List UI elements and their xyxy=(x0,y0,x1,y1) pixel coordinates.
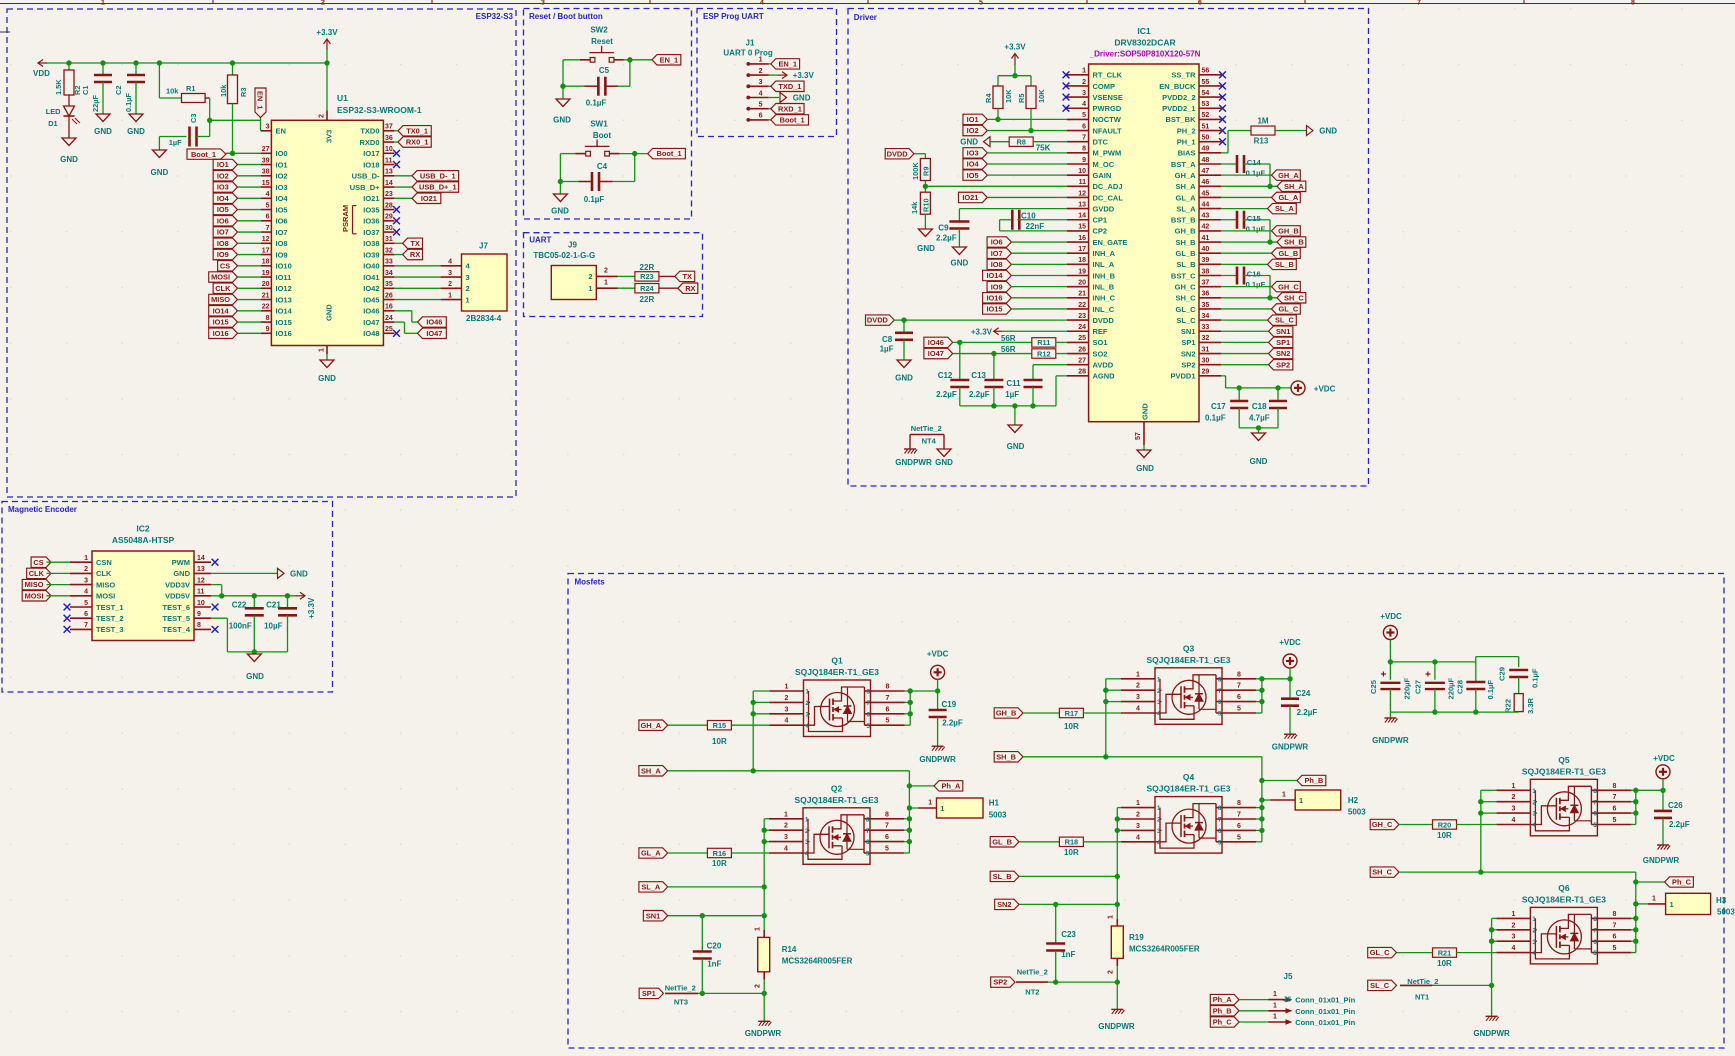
label IO8 left xyxy=(213,238,261,248)
svg-text:GH_A: GH_A xyxy=(1278,171,1299,180)
label IO46 right xyxy=(418,317,447,327)
svg-text:7: 7 xyxy=(1082,135,1086,142)
svg-text:1.5K: 1.5K xyxy=(54,79,63,95)
svg-text:R9: R9 xyxy=(922,167,931,176)
wire SW1 right xyxy=(599,151,648,182)
wire Q6 source bus xyxy=(1489,918,1497,1016)
svg-text:+VDC: +VDC xyxy=(1380,612,1402,621)
svg-text:C26: C26 xyxy=(1668,801,1683,810)
svg-text:IO6: IO6 xyxy=(217,216,229,225)
svg-text:DC_CAL: DC_CAL xyxy=(1093,193,1124,202)
IC1 left pin 20 INL_B xyxy=(1067,279,1115,291)
svg-text:15: 15 xyxy=(262,180,270,187)
svg-text:2: 2 xyxy=(466,284,470,293)
svg-text:H3: H3 xyxy=(1716,896,1727,905)
svg-text:1: 1 xyxy=(1282,792,1286,799)
svg-text:IO47: IO47 xyxy=(928,349,944,358)
svg-text:1: 1 xyxy=(1136,800,1140,807)
svg-text:4: 4 xyxy=(1136,834,1140,841)
svg-text:GNDPWR: GNDPWR xyxy=(1272,743,1309,752)
svg-text:CLK: CLK xyxy=(96,569,112,578)
power GND J1 xyxy=(769,93,811,103)
svg-text:57: 57 xyxy=(1135,432,1142,440)
svg-text:TX: TX xyxy=(683,272,693,281)
power +VDC driver xyxy=(1291,381,1336,395)
svg-text:19: 19 xyxy=(262,270,270,277)
svg-text:RX: RX xyxy=(685,284,695,293)
svg-text:SQJQ184ER-T1_GE3: SQJQ184ER-T1_GE3 xyxy=(1522,766,1606,776)
svg-text:SL_C: SL_C xyxy=(1176,316,1196,325)
J7 pin 4 xyxy=(394,259,470,271)
label CLK encoder xyxy=(27,568,51,578)
svg-text:26: 26 xyxy=(1078,346,1086,353)
IC1 left pin 15 CP2 xyxy=(1067,224,1107,236)
no-connect IC1 pin 55 xyxy=(1219,83,1226,90)
svg-text:15: 15 xyxy=(1078,224,1086,231)
svg-text:5: 5 xyxy=(266,202,270,209)
svg-text:IO35: IO35 xyxy=(363,205,379,214)
wire BIAS to R13 xyxy=(1221,131,1251,153)
svg-text:+VDC: +VDC xyxy=(927,650,949,659)
svg-text:PVDD2_2: PVDD2_2 xyxy=(1162,93,1195,102)
no-connect IC1 pin 53 xyxy=(1219,105,1226,112)
svg-text:+VDC: +VDC xyxy=(1314,385,1336,394)
svg-text:USB_D+_1: USB_D+_1 xyxy=(419,183,457,192)
resistor R1 xyxy=(159,63,209,103)
svg-text:3: 3 xyxy=(84,577,88,584)
svg-text:GVDD: GVDD xyxy=(1093,204,1115,213)
svg-text:EN_1: EN_1 xyxy=(256,91,265,110)
svg-text:NetTie_2: NetTie_2 xyxy=(911,424,942,433)
svg-text:10: 10 xyxy=(1078,168,1086,175)
label SH_A mosfet xyxy=(639,766,668,776)
svg-text:22µF: 22µF xyxy=(91,95,100,112)
label TX uart xyxy=(675,271,695,281)
svg-text:GH_B: GH_B xyxy=(1278,227,1299,236)
svg-text:C10: C10 xyxy=(1021,212,1036,221)
svg-text:NetTie_2: NetTie_2 xyxy=(665,984,696,993)
svg-text:2: 2 xyxy=(1136,812,1140,819)
svg-text:IO45: IO45 xyxy=(363,295,379,304)
IC1 left pin 9 M_OC xyxy=(1067,157,1115,169)
svg-text:SQJQ184ER-T1_GE3: SQJQ184ER-T1_GE3 xyxy=(794,795,878,805)
svg-text:10k: 10k xyxy=(219,84,228,97)
J1 pin 5 stub xyxy=(747,102,769,111)
IC1 left pin 8 M_PWM xyxy=(1067,146,1122,158)
IC1 right pin 38 BST_C xyxy=(1171,268,1221,280)
IC2 left pin 7 TEST_3 xyxy=(70,622,124,634)
label Boot_1 switch xyxy=(648,148,686,158)
svg-text:Q3: Q3 xyxy=(1183,643,1195,653)
svg-text:2.2µF: 2.2µF xyxy=(936,234,957,243)
svg-text:16: 16 xyxy=(1078,235,1086,242)
svg-text:7: 7 xyxy=(885,823,889,830)
capacitor C20 xyxy=(693,916,722,994)
svg-text:Reset: Reset xyxy=(591,37,613,46)
svg-text:6: 6 xyxy=(759,113,763,120)
label GH_B mosfet xyxy=(994,708,1023,718)
label MISO encoder xyxy=(22,579,51,589)
svg-text:1: 1 xyxy=(1299,796,1303,805)
wire AGND rail xyxy=(960,376,1067,409)
svg-text:PSRAM: PSRAM xyxy=(341,205,350,232)
label MISO left xyxy=(209,294,261,304)
svg-text:19: 19 xyxy=(1078,268,1086,275)
svg-text:43: 43 xyxy=(1202,213,1210,220)
svg-text:RX0_1: RX0_1 xyxy=(406,138,429,147)
label SN1 driver xyxy=(1221,326,1293,336)
IC1 left pin 13 GVDD xyxy=(1067,201,1115,213)
svg-text:220µF: 220µF xyxy=(1403,677,1412,699)
svg-text:GNDPWR: GNDPWR xyxy=(1643,856,1680,865)
svg-text:2.2µF: 2.2µF xyxy=(942,719,963,728)
svg-text:5: 5 xyxy=(1237,834,1241,841)
wire CS encoder xyxy=(47,561,71,563)
label IO47 driver xyxy=(924,348,1032,358)
svg-text:0.1µF: 0.1µF xyxy=(1486,680,1495,700)
ground below C1 xyxy=(94,114,112,136)
svg-text:C12: C12 xyxy=(938,371,953,380)
svg-text:GNDPWR: GNDPWR xyxy=(745,1029,782,1038)
svg-text:IO46: IO46 xyxy=(363,307,379,316)
no-connect IO18 xyxy=(393,161,400,168)
svg-text:C25: C25 xyxy=(1369,679,1378,694)
svg-text:BST_A: BST_A xyxy=(1171,160,1196,169)
svg-text:SH_B: SH_B xyxy=(1284,238,1304,247)
wire C17 C18 gnd rail xyxy=(1239,425,1278,433)
svg-text:1: 1 xyxy=(928,800,932,807)
svg-text:EN_1: EN_1 xyxy=(660,55,679,64)
svg-text:UART 0 Prog: UART 0 Prog xyxy=(723,49,772,58)
svg-text:8: 8 xyxy=(1082,146,1086,153)
IC1 left pin 12 DC_CAL xyxy=(1067,190,1124,202)
svg-text:1: 1 xyxy=(448,292,452,299)
svg-text:+VDC: +VDC xyxy=(1653,754,1675,763)
label IO21 driver xyxy=(959,192,1067,202)
svg-text:13: 13 xyxy=(385,169,393,176)
label IO2 left xyxy=(213,171,261,181)
svg-text:NT2: NT2 xyxy=(1025,988,1039,997)
wire Q5 drain bus xyxy=(1631,788,1665,825)
label SL_A driver xyxy=(1221,203,1296,213)
resistor R12 xyxy=(1001,345,1067,358)
svg-text:TBC05-02-1-G-G: TBC05-02-1-G-G xyxy=(533,251,595,260)
svg-text:1: 1 xyxy=(1108,915,1115,919)
svg-text:GH_B: GH_B xyxy=(1175,227,1196,236)
resistor R21 xyxy=(1397,948,1497,968)
svg-text:SP1: SP1 xyxy=(642,989,656,998)
svg-text:Ph_A: Ph_A xyxy=(941,782,961,791)
svg-text:C13: C13 xyxy=(971,371,986,380)
svg-text:R11: R11 xyxy=(1037,338,1050,347)
svg-text:38: 38 xyxy=(262,169,270,176)
svg-text:PVDD2_1: PVDD2_1 xyxy=(1162,104,1195,113)
label SL_B driver xyxy=(1221,259,1296,269)
label SH_C driver xyxy=(1221,293,1306,303)
svg-text:GL_A: GL_A xyxy=(1279,193,1299,202)
J1 pin 6 stub xyxy=(747,113,769,122)
svg-text:4: 4 xyxy=(84,589,88,596)
svg-text:Q1: Q1 xyxy=(831,656,843,666)
label SN2 driver xyxy=(1221,348,1293,358)
svg-text:0.1µF: 0.1µF xyxy=(1246,225,1266,234)
svg-text:36: 36 xyxy=(385,135,393,142)
svg-text:+VDC: +VDC xyxy=(1279,638,1301,647)
svg-text:INL_C: INL_C xyxy=(1093,305,1115,314)
IC1 left pin 23 DVDD xyxy=(1067,313,1115,325)
IC1 left pin 24 REF xyxy=(1067,324,1108,336)
resistor R15 xyxy=(668,721,770,747)
svg-text:AS5048A-HTSP: AS5048A-HTSP xyxy=(112,535,175,545)
label EN_1 reset xyxy=(652,55,681,65)
svg-text:8: 8 xyxy=(1612,783,1616,790)
svg-text:IO5: IO5 xyxy=(276,205,288,214)
resistor R20 xyxy=(1399,820,1496,840)
svg-text:10R: 10R xyxy=(1064,848,1079,857)
svg-text:5: 5 xyxy=(759,102,763,109)
wire bank gnd rail xyxy=(1390,709,1518,718)
svg-text:3V3: 3V3 xyxy=(325,130,334,143)
no-connect IC1 pin 2 xyxy=(1063,83,1070,90)
svg-text:12: 12 xyxy=(1078,190,1086,197)
svg-text:AVDD: AVDD xyxy=(1093,361,1114,370)
svg-text:27: 27 xyxy=(1078,358,1086,365)
wire Q3 source bus xyxy=(1103,679,1121,757)
wire SH_A PhA bus xyxy=(668,768,912,853)
svg-text:IO15: IO15 xyxy=(986,305,1002,314)
label SL_C driver xyxy=(1221,315,1296,325)
sheet border top ruler xyxy=(0,0,1735,7)
IC1 left pin 26 SO2 xyxy=(1067,346,1108,358)
IC1 right pin 46 SH_A xyxy=(1175,179,1221,191)
svg-text:Conn_01x01_Pin: Conn_01x01_Pin xyxy=(1295,1018,1355,1027)
capacitor C25 xyxy=(1369,662,1412,712)
svg-text:IO47: IO47 xyxy=(363,318,379,327)
svg-text:NOCTW: NOCTW xyxy=(1093,115,1122,124)
svg-text:7: 7 xyxy=(1417,0,1421,7)
svg-text:10µF: 10µF xyxy=(264,622,283,631)
svg-text:44: 44 xyxy=(1202,201,1210,208)
svg-text:NT3: NT3 xyxy=(674,998,688,1007)
svg-text:GNDPWR: GNDPWR xyxy=(1098,1022,1135,1031)
svg-text:2.2µF: 2.2µF xyxy=(1669,820,1690,829)
capacitor C11 xyxy=(1005,365,1066,406)
no-connect IO36 xyxy=(393,217,400,224)
label IO21 right xyxy=(394,193,440,203)
svg-text:IO16: IO16 xyxy=(986,293,1002,302)
svg-text:5: 5 xyxy=(84,600,88,607)
svg-text:50: 50 xyxy=(1202,135,1210,142)
svg-text:GL_B: GL_B xyxy=(1279,249,1299,258)
svg-text:ESP32-S3-WROOM-1: ESP32-S3-WROOM-1 xyxy=(337,105,422,115)
svg-text:IO46: IO46 xyxy=(928,338,944,347)
wire MOSI encoder xyxy=(47,595,71,597)
svg-text:2: 2 xyxy=(785,695,789,702)
svg-text:C27: C27 xyxy=(1414,680,1423,694)
label SN1 mosfet xyxy=(643,911,764,921)
svg-text:2: 2 xyxy=(1082,79,1086,86)
svg-text:1: 1 xyxy=(1273,1002,1277,1009)
no-connect IC2 TEST pin xyxy=(64,604,71,611)
svg-text:VDD5V: VDD5V xyxy=(165,592,190,601)
svg-text:TEST_6: TEST_6 xyxy=(162,603,190,612)
IC2 left pin 3 MISO xyxy=(70,577,115,589)
svg-text:2: 2 xyxy=(604,268,608,275)
svg-text:23: 23 xyxy=(385,191,393,198)
U1 right pin 28 IO35 xyxy=(363,202,394,214)
wire MISO encoder xyxy=(47,584,71,586)
U1 right pin 35 IO42 xyxy=(363,281,394,293)
label MOSI left xyxy=(209,272,261,282)
svg-text:SN2: SN2 xyxy=(1276,349,1290,358)
IC1 right pin 56 SS_TR xyxy=(1171,68,1221,80)
svg-text:4: 4 xyxy=(785,718,789,725)
svg-text:1: 1 xyxy=(1670,900,1674,909)
label GL_B driver xyxy=(1221,248,1300,258)
label RX right xyxy=(394,249,422,259)
svg-text:Q2: Q2 xyxy=(831,783,843,793)
svg-text:6: 6 xyxy=(1198,0,1202,7)
label RX0_1 xyxy=(394,137,431,147)
svg-text:+3.3V: +3.3V xyxy=(1004,43,1026,52)
svg-text:7: 7 xyxy=(1612,794,1616,801)
capacitor C3 xyxy=(159,114,209,147)
svg-text:IO38: IO38 xyxy=(363,239,379,248)
svg-text:IO4: IO4 xyxy=(217,194,230,203)
capacitor C15 xyxy=(1221,211,1270,242)
label TX0_1 xyxy=(394,126,431,136)
svg-text:1: 1 xyxy=(319,348,326,352)
svg-text:35: 35 xyxy=(1202,302,1210,309)
svg-text:C14: C14 xyxy=(1247,158,1262,167)
svg-text:0.1µF: 0.1µF xyxy=(586,99,607,108)
wire SP2 rail xyxy=(1048,979,1120,1009)
svg-text:0.1µF: 0.1µF xyxy=(584,195,605,204)
label IO15 driver xyxy=(983,304,1067,314)
svg-text:TEST_4: TEST_4 xyxy=(162,625,190,634)
label RXD_1 J1 xyxy=(769,104,804,114)
capacitor C4 xyxy=(584,162,608,204)
U1 right pin 36 RXD0 xyxy=(359,135,394,147)
IC2 left pin 1 CSN xyxy=(70,555,112,567)
J1 pin 4 stub xyxy=(747,90,769,99)
svg-text:1: 1 xyxy=(101,0,105,7)
svg-text:4: 4 xyxy=(1511,817,1515,824)
U1 left pin 39 IO1 xyxy=(261,157,288,169)
svg-text:MOSI: MOSI xyxy=(211,273,230,282)
svg-text:SL_B: SL_B xyxy=(1275,260,1294,269)
capacitor C9 GVDD xyxy=(936,209,1067,247)
svg-text:GL_C: GL_C xyxy=(1370,948,1390,957)
power GNDPWR Q4 xyxy=(1098,1009,1135,1031)
svg-text:25: 25 xyxy=(385,326,393,333)
svg-text:1: 1 xyxy=(588,284,592,293)
label EN_1 J1 xyxy=(769,59,800,69)
svg-text:SN2: SN2 xyxy=(1181,349,1196,358)
svg-text:IO14: IO14 xyxy=(986,271,1003,280)
svg-text:R4: R4 xyxy=(984,93,993,103)
capacitor C12 xyxy=(936,342,969,406)
U1 left pin 18 IO10 xyxy=(261,259,292,271)
svg-text:R23: R23 xyxy=(640,272,654,281)
svg-text:1: 1 xyxy=(759,57,763,64)
svg-text:38: 38 xyxy=(1202,268,1210,275)
svg-text:GND: GND xyxy=(1136,464,1154,473)
no-connect IC1 pin 4 xyxy=(1063,105,1070,112)
svg-text:SP2: SP2 xyxy=(1181,361,1195,370)
wire Q5 source bus xyxy=(1478,790,1496,872)
IC2 right pin 14 PWM xyxy=(172,555,211,567)
U1 left pin 27 IO0 xyxy=(261,146,288,158)
svg-text:2: 2 xyxy=(84,566,88,573)
no-connect PWM xyxy=(212,559,219,566)
J1 pin 2 stub xyxy=(747,68,769,77)
svg-text:56R: 56R xyxy=(1001,345,1016,354)
IC1 right pin 45 GL_A xyxy=(1175,190,1221,202)
U1 right pin 10 IO17 xyxy=(363,146,394,158)
svg-text:Mosfets: Mosfets xyxy=(575,578,606,587)
svg-text:GND: GND xyxy=(1250,457,1268,466)
svg-text:6: 6 xyxy=(885,834,889,841)
svg-text:3: 3 xyxy=(1136,823,1140,830)
svg-text:PH_1: PH_1 xyxy=(1177,138,1196,147)
svg-text:0.1µF: 0.1µF xyxy=(1531,668,1540,688)
svg-text:1: 1 xyxy=(84,555,88,562)
label GL_A mosfet xyxy=(639,848,668,858)
transistor Q5 SQJQ184ER-T1_GE3 xyxy=(1496,755,1631,836)
svg-text:23: 23 xyxy=(1078,313,1086,320)
no-connect IO17 xyxy=(393,150,400,157)
svg-text:USB_D-: USB_D- xyxy=(352,172,380,181)
svg-text:33: 33 xyxy=(1202,324,1210,331)
connector J7 xyxy=(462,242,508,324)
ground below C2 xyxy=(127,114,145,136)
svg-text:J7: J7 xyxy=(479,242,488,251)
svg-text:GL_A: GL_A xyxy=(641,849,661,858)
wire Q1 source bus xyxy=(751,691,770,771)
IC1 left pin 11 DC_ADJ xyxy=(1067,179,1123,191)
ground below C4 xyxy=(551,182,569,216)
svg-text:4: 4 xyxy=(266,191,270,198)
svg-text:34: 34 xyxy=(1202,313,1210,320)
svg-text:1: 1 xyxy=(604,279,608,286)
svg-text:PWM: PWM xyxy=(172,558,190,567)
svg-text:GND: GND xyxy=(290,569,308,578)
svg-text:3: 3 xyxy=(1082,90,1086,97)
capacitor C28 xyxy=(1456,662,1496,712)
svg-text:0.1µF: 0.1µF xyxy=(1205,414,1226,423)
power GND DTC xyxy=(960,137,990,147)
svg-text:TEST_1: TEST_1 xyxy=(96,603,124,612)
svg-text:5003: 5003 xyxy=(1717,908,1735,917)
wire Q2 drain bus xyxy=(904,816,912,853)
label SP1 driver xyxy=(1221,337,1293,347)
svg-text:Ph_B: Ph_B xyxy=(1213,1006,1232,1015)
no-connect IO35 xyxy=(393,206,400,213)
IC1 left pin 2 COMP xyxy=(1067,79,1115,91)
svg-text:GH_B: GH_B xyxy=(996,709,1017,718)
net tie NT4 xyxy=(910,424,944,449)
svg-text:SP1: SP1 xyxy=(1181,338,1195,347)
svg-text:18: 18 xyxy=(262,259,270,266)
svg-text:Conn_01x01_Pin: Conn_01x01_Pin xyxy=(1295,1007,1355,1016)
label DVDD upper xyxy=(885,149,914,159)
svg-text:GL_B: GL_B xyxy=(1175,249,1196,258)
svg-text:GND: GND xyxy=(553,116,571,125)
svg-text:8: 8 xyxy=(886,684,890,691)
IC2 left pin 4 MOSI xyxy=(70,589,115,601)
svg-text:IO15: IO15 xyxy=(213,318,229,327)
